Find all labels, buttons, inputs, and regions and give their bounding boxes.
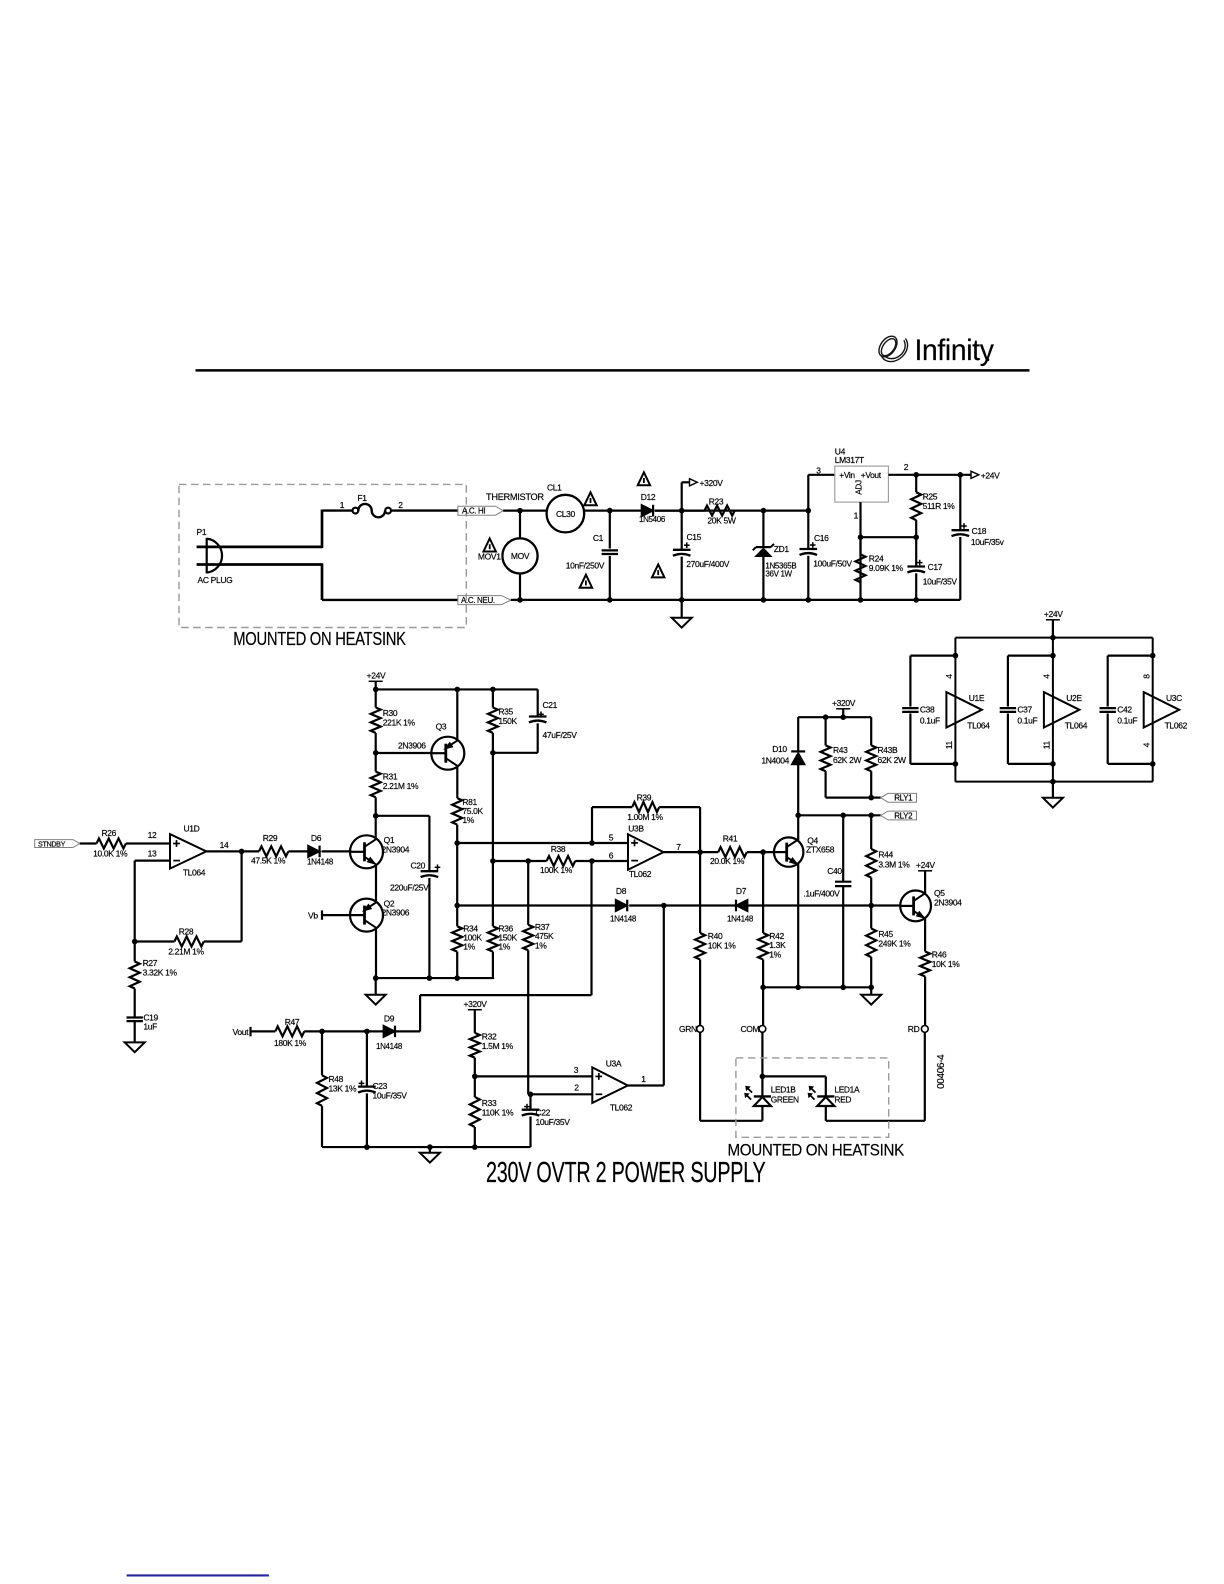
resistor R34 100K 1% bbox=[456, 906, 458, 927]
svg-text:1%: 1% bbox=[498, 942, 510, 952]
warning triangle right of CL30 bbox=[584, 492, 596, 505]
svg-text:+Vout: +Vout bbox=[861, 470, 882, 480]
svg-text:2: 2 bbox=[574, 1083, 579, 1093]
svg-text:GRN: GRN bbox=[679, 1024, 697, 1034]
wire U3B output bbox=[664, 851, 719, 853]
svg-text:TL064: TL064 bbox=[1065, 720, 1088, 730]
svg-text:+320V: +320V bbox=[700, 478, 724, 488]
svg-text:100uF/50V: 100uF/50V bbox=[813, 558, 852, 568]
svg-text:10uF/35v: 10uF/35v bbox=[971, 537, 1005, 547]
svg-text:R28: R28 bbox=[179, 926, 194, 936]
svg-text:2N3906: 2N3906 bbox=[382, 908, 410, 918]
transistor Q1 2N3904 bbox=[350, 835, 383, 868]
svg-text:LED1A: LED1A bbox=[834, 1084, 860, 1094]
svg-text:LED1B: LED1B bbox=[771, 1084, 797, 1094]
svg-text:TL062: TL062 bbox=[610, 1102, 633, 1112]
svg-text:D6: D6 bbox=[311, 833, 322, 843]
capacitor C19 1uF bbox=[127, 1016, 143, 1018]
svg-text:1: 1 bbox=[641, 1074, 646, 1084]
svg-text:RLY1: RLY1 bbox=[894, 794, 913, 803]
svg-text:10uF/35V: 10uF/35V bbox=[923, 577, 958, 587]
transistor Q4 ZTX658 bbox=[774, 837, 803, 866]
resistor R38 100K 1% bbox=[547, 856, 576, 866]
svg-text:TL062: TL062 bbox=[1165, 720, 1188, 730]
op-amp power block outer box bbox=[955, 637, 1152, 639]
power arrow +320V at C15 node bbox=[681, 482, 683, 510]
svg-text:10.0K 1%: 10.0K 1% bbox=[93, 848, 128, 858]
svg-text:150K: 150K bbox=[498, 716, 517, 726]
transistor Q2 2N3906 bbox=[350, 899, 383, 932]
svg-text:D8: D8 bbox=[616, 886, 627, 896]
feedback wire to R28 bbox=[241, 851, 243, 941]
svg-text:U1D: U1D bbox=[184, 823, 200, 833]
wire R30/R31 node to Q3 base bbox=[376, 752, 432, 754]
resistor R32 1.5M 1% bbox=[470, 1033, 480, 1058]
wire R26 to U1D pin12 bbox=[126, 842, 170, 844]
op-amp U3C TL062 power pins bbox=[1144, 692, 1180, 727]
footer link rule bbox=[127, 1574, 269, 1576]
header rule bbox=[196, 369, 1030, 372]
svg-text:R35: R35 bbox=[498, 706, 513, 716]
junction dots top section bbox=[517, 508, 523, 514]
svg-text:D9: D9 bbox=[384, 1014, 395, 1024]
wire STNDBY to R26 bbox=[80, 842, 97, 844]
svg-text:D10: D10 bbox=[772, 744, 787, 754]
wire R38/pin6 line bbox=[493, 860, 547, 862]
svg-text:2.21M 1%: 2.21M 1% bbox=[383, 781, 419, 791]
svg-text:180K 1%: 180K 1% bbox=[274, 1038, 307, 1048]
svg-text:1N4148: 1N4148 bbox=[376, 1042, 403, 1051]
capacitor C15 270uF/400V bbox=[681, 511, 683, 550]
wire R35 node down to R38 node bbox=[492, 753, 494, 927]
svg-text:10uF/35V: 10uF/35V bbox=[536, 1117, 571, 1127]
resistor R35 150K bbox=[492, 689, 494, 707]
resistor R29 47.5K 1% bbox=[259, 846, 288, 856]
svg-text:8: 8 bbox=[1141, 674, 1151, 679]
svg-text:COM: COM bbox=[741, 1024, 760, 1034]
net tag RLY1 bbox=[871, 796, 881, 798]
ground below R45 bbox=[870, 987, 872, 995]
resistor R23 20K 5W bbox=[655, 510, 705, 512]
svg-text:R25: R25 bbox=[923, 491, 938, 501]
svg-text:47uF/25V: 47uF/25V bbox=[543, 730, 578, 740]
capacitor C20 220uF/25V bbox=[428, 816, 430, 871]
svg-text:511R 1%: 511R 1% bbox=[923, 501, 956, 511]
svg-text:1%: 1% bbox=[535, 940, 547, 950]
svg-text:11: 11 bbox=[1042, 741, 1052, 750]
svg-text:TL064: TL064 bbox=[967, 720, 990, 730]
junction dots mid section bbox=[239, 849, 245, 855]
svg-text:13K 1%: 13K 1% bbox=[329, 1084, 357, 1094]
svg-text:+Vin: +Vin bbox=[839, 470, 855, 480]
svg-text:20K 5W: 20K 5W bbox=[707, 515, 735, 525]
svg-text:U3B: U3B bbox=[628, 824, 644, 834]
svg-text:STNDBY: STNDBY bbox=[38, 839, 66, 848]
op-amp U2E TL064 power pins bbox=[1044, 692, 1080, 727]
svg-text:47.5K 1%: 47.5K 1% bbox=[251, 855, 286, 865]
svg-text:3: 3 bbox=[816, 465, 821, 475]
wire D8/D7 comparator line bbox=[457, 904, 615, 906]
svg-text:11: 11 bbox=[944, 741, 954, 750]
svg-text:CL30: CL30 bbox=[556, 509, 576, 519]
diode D7 1N4148 bbox=[735, 900, 737, 912]
resistor R36 150K 1% bbox=[488, 926, 498, 951]
svg-text:C40: C40 bbox=[827, 866, 842, 876]
svg-text:P1: P1 bbox=[197, 527, 207, 537]
wire Q4 collector to RLY2 line bbox=[797, 815, 799, 840]
wire COM to LED anodes bbox=[761, 1032, 763, 1096]
svg-text:RD: RD bbox=[908, 1024, 920, 1034]
resistor R37 475K 1% bbox=[527, 861, 529, 925]
svg-text:10K 1%: 10K 1% bbox=[708, 941, 736, 951]
svg-text:62K 2W: 62K 2W bbox=[878, 755, 906, 765]
svg-text:0.1uF: 0.1uF bbox=[920, 716, 940, 726]
resistor R42 1.3K 1% bbox=[762, 852, 764, 933]
svg-text:TL064: TL064 bbox=[183, 868, 206, 878]
svg-text:1N4148: 1N4148 bbox=[610, 915, 637, 924]
wire Q3 emitter to +24V rail bbox=[456, 689, 458, 740]
net tag STNDBY bbox=[35, 840, 80, 848]
LED LED1A RED bbox=[817, 1095, 834, 1097]
svg-text:+24V: +24V bbox=[916, 860, 935, 870]
capacitor C22 10uF/35V bbox=[529, 1094, 531, 1109]
svg-text:R44: R44 bbox=[878, 850, 893, 860]
svg-text:GREEN: GREEN bbox=[771, 1094, 799, 1104]
svg-text:1%: 1% bbox=[462, 815, 474, 825]
resistor R40 10K 1% bbox=[699, 852, 701, 933]
svg-text:MOV: MOV bbox=[511, 551, 530, 561]
Infinity logo swirl mark bbox=[875, 333, 907, 362]
resistor R46 10K 1% bbox=[920, 952, 930, 977]
wire R32/R33 node to U3A pin3 bbox=[475, 1075, 593, 1077]
regulator U4 LM317T bbox=[807, 475, 809, 511]
svg-text:10uF/35V: 10uF/35V bbox=[373, 1091, 408, 1101]
resistor R26 10.0K 1% bbox=[97, 839, 126, 849]
svg-text:9.09K 1%: 9.09K 1% bbox=[869, 563, 904, 573]
svg-text:.1uF/400V: .1uF/400V bbox=[803, 888, 840, 898]
svg-text:+320V: +320V bbox=[832, 698, 856, 708]
svg-text:+320V: +320V bbox=[464, 999, 488, 1009]
resistor R47 180K 1% bbox=[275, 1026, 304, 1036]
op-amp U1E TL064 power pins bbox=[946, 692, 982, 727]
resistor R45 249K 1% bbox=[870, 906, 872, 929]
wire C22 node to U3A pin2 bbox=[531, 1093, 593, 1095]
svg-text:ZD1: ZD1 bbox=[774, 544, 790, 554]
warning triangle left of C15 bbox=[652, 564, 664, 577]
wire U3A output riser to D8 node bbox=[663, 906, 665, 1086]
svg-text:1: 1 bbox=[340, 500, 345, 510]
svg-text:U2E: U2E bbox=[1066, 693, 1082, 703]
svg-text:4: 4 bbox=[1141, 742, 1151, 747]
svg-text:6: 6 bbox=[609, 851, 614, 861]
svg-text:MOUNTED ON HEATSINK: MOUNTED ON HEATSINK bbox=[233, 629, 406, 649]
svg-text:1N4004: 1N4004 bbox=[761, 756, 789, 766]
svg-text:100K 1%: 100K 1% bbox=[540, 865, 573, 875]
svg-text:Vb: Vb bbox=[308, 910, 318, 920]
svg-text:C38: C38 bbox=[920, 705, 935, 715]
resistor R81 75.0K 1% bbox=[452, 798, 462, 825]
net tag A.C. NEU. bbox=[458, 596, 511, 605]
wire D9 to U3B pin6 riser bbox=[395, 1030, 420, 1032]
svg-text:ZTX658: ZTX658 bbox=[806, 845, 835, 855]
resistor R48 13K 1% bbox=[321, 1031, 323, 1075]
wire U1D output pin14 bbox=[206, 850, 259, 852]
resistor R44 3.3M 1% bbox=[870, 815, 872, 849]
capacitor C18 10uF/35v bbox=[959, 475, 961, 530]
svg-text:F1: F1 bbox=[357, 493, 367, 503]
wire GRN to LED1B cathode bbox=[699, 1032, 701, 1121]
svg-text:D12: D12 bbox=[641, 492, 656, 502]
svg-text:MOV1: MOV1 bbox=[478, 552, 501, 562]
svg-text:0.1uF: 0.1uF bbox=[1117, 716, 1137, 726]
svg-text:14: 14 bbox=[220, 840, 229, 850]
resistor R41 20.0K 1% bbox=[718, 847, 747, 857]
svg-text:5: 5 bbox=[609, 833, 614, 843]
svg-text:R46: R46 bbox=[932, 949, 947, 959]
U4 ADJ pin1 wire bbox=[859, 502, 861, 600]
svg-text:1N4148: 1N4148 bbox=[307, 857, 334, 866]
warning triangle above D12 bbox=[638, 472, 650, 485]
transistor Q3 2N3906 bbox=[431, 737, 464, 770]
svg-text:ADJ: ADJ bbox=[854, 480, 863, 495]
svg-text:RLY2: RLY2 bbox=[894, 811, 913, 820]
transistor Q5 2N3904 bbox=[900, 891, 931, 922]
wire bottom mid ground rail bbox=[322, 1146, 531, 1148]
svg-text:A.C. NEU.: A.C. NEU. bbox=[461, 596, 495, 605]
svg-text:C22: C22 bbox=[536, 1108, 551, 1118]
svg-text:62K 2W: 62K 2W bbox=[833, 755, 861, 765]
svg-text:221K 1%: 221K 1% bbox=[383, 717, 416, 727]
svg-text:+24V: +24V bbox=[1044, 609, 1063, 619]
svg-text:R38: R38 bbox=[551, 844, 566, 854]
svg-text:20.0K 1%: 20.0K 1% bbox=[710, 856, 745, 866]
svg-text:1%: 1% bbox=[769, 949, 781, 959]
svg-text:R39: R39 bbox=[637, 792, 652, 802]
ground below C19 bbox=[125, 1042, 145, 1052]
wire Q5 emitter to R46 bbox=[924, 919, 926, 952]
svg-text:3.32K 1%: 3.32K 1% bbox=[143, 968, 178, 978]
U4 pin2 wire to +24V bbox=[888, 474, 971, 476]
svg-text:U1E: U1E bbox=[969, 693, 985, 703]
svg-text:+24V: +24V bbox=[981, 470, 1000, 480]
resistor R30 221K 1% bbox=[375, 689, 377, 707]
zener ZD1 1N5365B 36V 1W bbox=[762, 511, 764, 548]
svg-text:1uF: 1uF bbox=[143, 1021, 157, 1031]
wire mid ground rail bbox=[376, 977, 494, 979]
svg-text:C37: C37 bbox=[1017, 705, 1032, 715]
svg-text:270uF/400V: 270uF/400V bbox=[686, 559, 729, 569]
capacitor C40 .1uF/400V bbox=[842, 815, 844, 882]
svg-text:LM317T: LM317T bbox=[835, 455, 864, 465]
warning triangle near MOV1 bbox=[484, 539, 496, 552]
capacitor C16 100uF/50V bbox=[807, 511, 809, 549]
svg-text:R47: R47 bbox=[285, 1017, 300, 1027]
wire +24V rail bbox=[376, 688, 538, 690]
svg-text:1N5406: 1N5406 bbox=[639, 515, 666, 524]
svg-text:4: 4 bbox=[1042, 674, 1052, 679]
ground at AC NEU rail bbox=[681, 600, 683, 618]
svg-text:Vout: Vout bbox=[233, 1027, 250, 1037]
svg-text:U3A: U3A bbox=[606, 1058, 622, 1068]
svg-text:R31: R31 bbox=[383, 772, 398, 782]
net tag RLY2 line bbox=[798, 814, 881, 816]
resistor R33 110K 1% bbox=[474, 1076, 476, 1097]
resistor R43B 62K 2W bbox=[870, 717, 872, 745]
svg-text:D7: D7 bbox=[736, 886, 747, 896]
svg-text:R26: R26 bbox=[102, 828, 117, 838]
svg-text:1%: 1% bbox=[463, 942, 475, 952]
junction dots op-amp power block bbox=[1050, 635, 1056, 641]
svg-text:C21: C21 bbox=[543, 700, 558, 710]
svg-text:RED: RED bbox=[834, 1094, 851, 1104]
wire plug hot bbox=[197, 546, 322, 549]
svg-text:R41: R41 bbox=[723, 834, 738, 844]
svg-text:R27: R27 bbox=[143, 958, 158, 968]
svg-text:00406-4: 00406-4 bbox=[936, 1054, 947, 1089]
varistor MOV1 bbox=[519, 511, 521, 539]
svg-text:CL1: CL1 bbox=[547, 483, 562, 493]
svg-text:1N4148: 1N4148 bbox=[727, 915, 754, 924]
svg-text:110K 1%: 110K 1% bbox=[482, 1107, 514, 1117]
wire A.C. NEU rail bbox=[511, 599, 961, 601]
svg-text:4: 4 bbox=[944, 674, 954, 679]
wire U1D pin13 bbox=[135, 859, 170, 861]
resistor R25 511R 1% bbox=[915, 475, 917, 493]
wire R81 node down to D8 line bbox=[456, 843, 458, 906]
wire +320V rail to R43/R43B bbox=[798, 716, 871, 718]
op-amp U3B TL062 bbox=[628, 834, 664, 870]
capacitor C38 0.1uF loop bbox=[910, 654, 955, 656]
wire U2E power pin column bbox=[1052, 638, 1054, 782]
svg-text:230V OVTR 2 POWER SUPPLY: 230V OVTR 2 POWER SUPPLY bbox=[486, 1157, 766, 1189]
svg-text:Infinity: Infinity bbox=[915, 334, 994, 367]
svg-text:13: 13 bbox=[148, 848, 157, 858]
resistor R43 62K 2W bbox=[824, 717, 826, 745]
svg-text:2: 2 bbox=[398, 500, 403, 510]
svg-text:TL062: TL062 bbox=[629, 869, 652, 879]
svg-text:2N3906: 2N3906 bbox=[398, 740, 426, 750]
svg-text:1.00M 1%: 1.00M 1% bbox=[627, 812, 663, 822]
diode D9 1N4148 bbox=[383, 1026, 395, 1038]
svg-text:C42: C42 bbox=[1117, 705, 1132, 715]
svg-text:R43: R43 bbox=[833, 745, 848, 755]
LED LED1B GREEN bbox=[754, 1095, 771, 1097]
svg-text:1.5M 1%: 1.5M 1% bbox=[482, 1041, 514, 1051]
svg-text:0.1uF: 0.1uF bbox=[1017, 716, 1037, 726]
capacitor C1 10nF/250V bbox=[609, 511, 611, 549]
svg-text:C1: C1 bbox=[593, 533, 604, 543]
svg-text:R32: R32 bbox=[482, 1032, 497, 1042]
ground below op-amp power block bbox=[1052, 782, 1054, 798]
svg-text:R33: R33 bbox=[482, 1098, 497, 1108]
wire lower ground rail right bbox=[763, 986, 871, 988]
svg-text:7: 7 bbox=[676, 842, 681, 852]
wire A.C. HI rail bbox=[503, 510, 546, 512]
svg-text:Q3: Q3 bbox=[436, 722, 447, 732]
wire R81 node to U3B pin5 bbox=[457, 842, 628, 844]
capacitor C37 0.1uF loop bbox=[1008, 654, 1053, 656]
svg-text:R48: R48 bbox=[329, 1074, 344, 1084]
wire Q1 collector bbox=[375, 816, 377, 839]
resistor R31 2.21M 1% bbox=[375, 753, 377, 772]
op-amp U3A TL062 bbox=[592, 1067, 628, 1103]
svg-text:R43B: R43B bbox=[878, 745, 899, 755]
svg-text:2N3904: 2N3904 bbox=[382, 844, 410, 854]
svg-text:+24V: +24V bbox=[367, 671, 386, 681]
net tag A.C. HI bbox=[458, 506, 503, 515]
fuse F1 bbox=[353, 508, 359, 514]
resistor R28 2.21M 1% bbox=[174, 937, 203, 947]
svg-text:10nF/250V: 10nF/250V bbox=[566, 560, 605, 570]
svg-text:THERMISTOR: THERMISTOR bbox=[486, 492, 544, 502]
svg-text:R45: R45 bbox=[878, 929, 893, 939]
diode D12 1N5406 bbox=[642, 505, 654, 517]
capacitor C21 47uF/25V bbox=[537, 689, 539, 716]
svg-text:R40: R40 bbox=[708, 931, 723, 941]
op-amp U1D TL064 bbox=[170, 834, 206, 869]
wire fuse to AC HI tag bbox=[391, 509, 458, 511]
wire plug neutral bbox=[197, 563, 322, 566]
svg-text:3: 3 bbox=[574, 1065, 579, 1075]
svg-text:U3C: U3C bbox=[1166, 693, 1182, 703]
svg-text:C15: C15 bbox=[687, 532, 702, 542]
svg-text:C18: C18 bbox=[972, 526, 987, 536]
svg-text:A.C. HI: A.C. HI bbox=[462, 506, 485, 515]
svg-text:AC PLUG: AC PLUG bbox=[198, 575, 233, 585]
svg-text:36V 1W: 36V 1W bbox=[765, 570, 792, 579]
dashed enclosure MOUNTED ON HEATSINK (AC input) bbox=[179, 484, 466, 627]
ground below Q2 bbox=[375, 978, 377, 995]
ground below mid rail bbox=[429, 1147, 431, 1153]
svg-text:220uF/25V: 220uF/25V bbox=[390, 883, 429, 893]
svg-text:R23: R23 bbox=[709, 497, 724, 507]
svg-text:C23: C23 bbox=[373, 1081, 388, 1091]
capacitor C17 10uF/35V bbox=[915, 537, 917, 566]
svg-text:2N3904: 2N3904 bbox=[934, 897, 962, 907]
svg-text:1: 1 bbox=[854, 511, 859, 521]
capacitor C42 0.1uF loop bbox=[1108, 654, 1153, 656]
dashed enclosure LEDs mounted on heatsink bbox=[736, 1058, 889, 1137]
resistor R27 3.32K 1% bbox=[134, 942, 136, 962]
wire Q3 collector to R81 bbox=[456, 766, 458, 798]
svg-text:2.21M 1%: 2.21M 1% bbox=[168, 946, 204, 956]
svg-text:R24: R24 bbox=[869, 553, 884, 563]
svg-text:3.3M 1%: 3.3M 1% bbox=[878, 859, 910, 869]
wire R31 node to C20 bbox=[376, 815, 430, 817]
svg-text:C16: C16 bbox=[814, 533, 829, 543]
wire Q2 collector to ground rail bbox=[375, 928, 377, 978]
diode D8 1N4148 bbox=[616, 900, 628, 912]
resistor R24 9.09K 1% bbox=[859, 537, 861, 554]
resistor R39 1.00M 1% feedback bbox=[591, 807, 593, 843]
wire ADJ node to R25/C17 node bbox=[861, 536, 917, 538]
capacitor C23 10uF/35V bbox=[366, 1031, 368, 1086]
wire Q4 emitter down to ground rail bbox=[797, 864, 799, 987]
diode D6 1N4148 bbox=[288, 850, 308, 852]
svg-text:2: 2 bbox=[904, 462, 909, 472]
svg-text:C20: C20 bbox=[411, 861, 426, 871]
svg-text:R30: R30 bbox=[383, 708, 398, 718]
svg-text:12: 12 bbox=[148, 830, 157, 840]
svg-text:R29: R29 bbox=[263, 833, 278, 843]
warning triangle below C1 value bbox=[580, 575, 592, 588]
diode D10 1N4004 bbox=[797, 717, 799, 751]
svg-text:C17: C17 bbox=[928, 562, 943, 572]
wire Q1 emitter to Q2 emitter bbox=[375, 865, 377, 902]
svg-text:249K 1%: 249K 1% bbox=[878, 938, 911, 948]
svg-text:10K 1%: 10K 1% bbox=[932, 959, 960, 969]
wire LED bottoms to RD bbox=[761, 1106, 763, 1121]
